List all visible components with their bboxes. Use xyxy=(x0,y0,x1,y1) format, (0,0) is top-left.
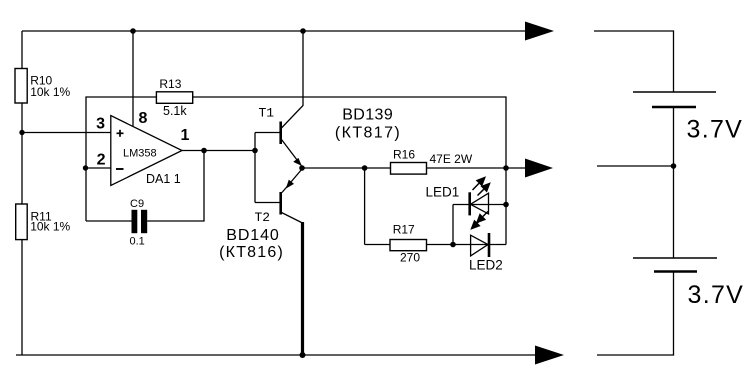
svg-text:R16: R16 xyxy=(393,148,415,162)
battery B2 bottom wire xyxy=(597,272,674,356)
op-amp U DA1.1 triangle xyxy=(111,116,182,186)
battery B1 top wire xyxy=(594,31,674,92)
wire T2 collector thick drop xyxy=(301,222,304,355)
transistor Q T1 base bar xyxy=(279,122,282,145)
svg-text:LED1: LED1 xyxy=(426,185,460,200)
wire R16-R17 left link xyxy=(364,168,366,245)
diode LED1 emission arrow b xyxy=(478,189,484,195)
node output junction xyxy=(201,148,207,154)
svg-text:BD139: BD139 xyxy=(342,107,393,124)
capacitor C9 left plate xyxy=(132,210,138,233)
battery B1 short plate xyxy=(652,106,696,108)
diode LED1 emission arrow a xyxy=(473,183,479,190)
transistor T2 emitter lead xyxy=(282,169,302,193)
transistor T2 collector lead xyxy=(282,213,303,224)
svg-text:10k 1%: 10k 1% xyxy=(30,85,70,99)
transistor T1 emitter lead xyxy=(282,140,303,167)
resistor R10 body xyxy=(15,69,27,104)
wire pin2 input xyxy=(85,167,111,169)
wire battery middle link xyxy=(673,107,675,258)
diode LED2 emission arrow b xyxy=(483,211,488,216)
battery B1 long plate xyxy=(633,91,716,93)
svg-text:3.7V: 3.7V xyxy=(687,116,744,144)
resistor R11 body xyxy=(16,204,28,240)
node pin3 junction xyxy=(19,130,24,135)
resistor R13 body xyxy=(156,92,192,104)
svg-text:47E 2W: 47E 2W xyxy=(430,152,473,166)
transistor T2 emitter arrowhead xyxy=(286,180,294,189)
resistor R16 body xyxy=(391,163,427,175)
wire emitter node to R16 row xyxy=(302,167,506,169)
svg-text:8: 8 xyxy=(139,110,148,127)
wire R13 feedback run: up from pin2 node, across top, down right side xyxy=(86,97,506,245)
svg-text:270: 270 xyxy=(400,251,420,265)
wire middle tap to arrow xyxy=(506,167,525,169)
node R16 left junction xyxy=(362,165,368,171)
svg-text:5.1k: 5.1k xyxy=(163,104,187,118)
node middle tap junction xyxy=(503,165,509,171)
svg-text:T1: T1 xyxy=(259,106,275,121)
wire C9 feedback loop xyxy=(86,220,132,222)
wire pin3 input xyxy=(22,132,111,134)
op-amp plus input marker xyxy=(117,132,124,134)
node LED branch junction xyxy=(450,242,456,248)
svg-text:DA1 1: DA1 1 xyxy=(146,172,181,186)
wire top rail xyxy=(22,30,525,32)
terminal arrow bottom xyxy=(535,346,564,365)
transistor T1 collector lead xyxy=(282,31,304,128)
diode LED2 triangle (points right) xyxy=(471,235,488,256)
terminal arrow top xyxy=(525,22,554,41)
svg-text:1: 1 xyxy=(181,127,190,144)
wire T1 base lead xyxy=(255,132,280,134)
node pin8 top junction xyxy=(130,28,136,34)
diode LED2 emission arrow a xyxy=(477,218,482,223)
svg-text:0.1: 0.1 xyxy=(130,236,145,248)
node LED1 cathode junction xyxy=(503,202,509,208)
transistor Q T2 base bar xyxy=(279,192,282,215)
svg-text:(КТ817): (КТ817) xyxy=(335,125,401,142)
wire T2 base lead xyxy=(255,202,280,204)
svg-text:10k 1%: 10k 1% xyxy=(30,220,70,234)
battery B2 long plate xyxy=(633,257,717,259)
wire op-amp output xyxy=(182,150,255,152)
node bottom rail junction xyxy=(300,352,306,358)
wire battery middle tap xyxy=(597,165,674,167)
node T1 collector top junction xyxy=(300,28,306,34)
wire bottom rail xyxy=(16,354,535,356)
diode LED1 triangle (points left) xyxy=(471,193,489,214)
svg-text:R13: R13 xyxy=(159,77,181,91)
svg-text:3: 3 xyxy=(96,116,105,133)
wire base tree vertical xyxy=(254,133,256,203)
wire pin8 supply xyxy=(132,31,134,127)
svg-text:R17: R17 xyxy=(393,223,415,237)
svg-text:BD140: BD140 xyxy=(226,227,279,244)
transistor T1 emitter arrowhead xyxy=(293,158,302,166)
terminal arrow middle xyxy=(525,159,553,178)
wire LED1 branch vertical xyxy=(452,205,454,245)
node emitter output junction xyxy=(299,165,305,171)
wire R17 LED2 row xyxy=(365,244,506,246)
svg-text:3.7V: 3.7V xyxy=(688,281,745,309)
diode LED1 cathode bar xyxy=(468,192,471,215)
svg-text:(КТ816): (КТ816) xyxy=(219,244,284,261)
wire LED1 row xyxy=(453,204,506,206)
resistor R17 body xyxy=(390,240,427,251)
svg-text:C9: C9 xyxy=(130,198,144,210)
wire left vertical rail xyxy=(21,31,23,355)
node battery middle junction xyxy=(671,163,677,169)
svg-text:2: 2 xyxy=(97,152,106,169)
svg-text:T2: T2 xyxy=(255,210,271,225)
diode LED2 cathode bar xyxy=(488,233,491,257)
node pin2 junction xyxy=(83,165,88,170)
svg-text:LED2: LED2 xyxy=(469,258,503,273)
battery B2 short plate xyxy=(654,270,697,272)
capacitor C9 right plate xyxy=(141,210,147,233)
svg-text:LM358: LM358 xyxy=(123,148,157,160)
node transistor base junction xyxy=(252,148,258,154)
op-amp minus input marker xyxy=(116,168,124,170)
